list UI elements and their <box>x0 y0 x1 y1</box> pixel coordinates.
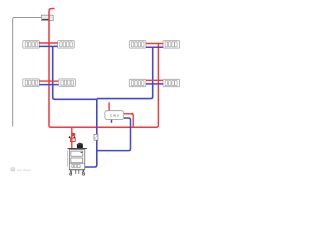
wire: red stub row1 left <box>39 42 58 44</box>
svg-text:C.W.U: C.W.U <box>110 114 119 118</box>
radiator row1 right A <box>129 41 146 48</box>
radiator row2 left A <box>23 79 40 86</box>
wire: red stub row1 right <box>146 43 163 45</box>
wire: gray overflow pipe from expansion tank down left side <box>13 17 42 126</box>
wire: red stub above C.W.U <box>108 102 110 111</box>
radiator row2 left B <box>59 79 76 86</box>
pump on boiler supply <box>69 133 76 142</box>
boiler <box>68 143 87 176</box>
valve on blue return riser <box>94 134 98 140</box>
wire: red C.W.U supply branch <box>124 114 134 127</box>
logo bottom left <box>11 168 32 172</box>
radiator row1 right B <box>163 41 180 48</box>
radiator row1 left B <box>58 41 75 48</box>
wire: blue stub below C.W.U <box>111 119 113 122</box>
wire: red stub row2 left <box>39 80 58 82</box>
node: red tee dot at C.W.U branch corner <box>131 113 133 115</box>
wire: blue stub row2 left <box>39 84 58 86</box>
wire: blue return riser to boiler <box>85 99 97 167</box>
radiator row2 right A <box>129 79 146 86</box>
C.W.U heat exchanger box <box>105 111 124 120</box>
wire: red supply main (left riser + basement run + right riser) <box>49 9 158 128</box>
wire: red drop from main to boiler <box>71 127 73 148</box>
wire: blue stub row2 right <box>146 83 163 85</box>
wire: blue left riser down to collector <box>53 46 97 99</box>
wire: red stub row2 right <box>146 79 163 81</box>
radiator row2 right B <box>163 79 180 86</box>
svg-text:sam dmaps: sam dmaps <box>17 168 32 172</box>
wire: blue stub row1 left <box>39 45 58 47</box>
expansion tank <box>41 15 53 20</box>
wire: blue stub row1 right <box>146 46 163 48</box>
wire: blue C.W.U return branch <box>97 118 131 151</box>
wire: blue right riser down to collector <box>97 47 153 98</box>
radiator row1 left A <box>23 41 40 48</box>
